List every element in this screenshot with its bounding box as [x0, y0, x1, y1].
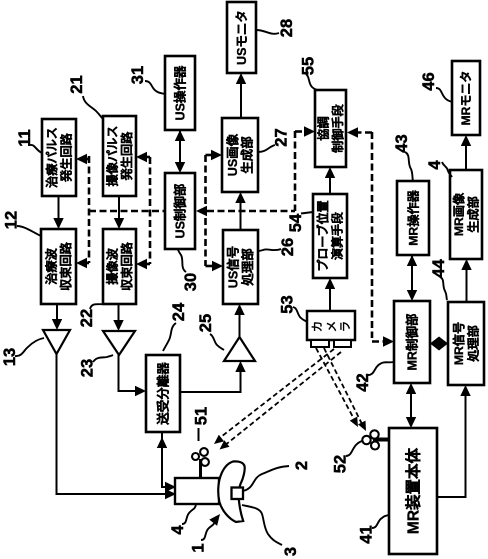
arrowhead into 30 top: [175, 162, 185, 173]
dashed stub to 55 right: [358, 131, 372, 134]
block 30 US制御部: [165, 173, 195, 249]
leader 31: [145, 81, 165, 94]
leader 43: [405, 152, 413, 181]
svg-text:3: 3: [282, 547, 300, 556]
leader 55: [306, 74, 317, 90]
svg-text:52: 52: [331, 455, 349, 473]
svg-text:治療波: 治療波: [44, 247, 59, 284]
svg-text:処理部: 処理部: [240, 248, 255, 287]
probe cable rect 4: [175, 478, 219, 504]
dashed bus V1 from US-controller: [88, 156, 91, 263]
block 21 撮像パルス発生回路: [103, 116, 136, 196]
leader 21: [83, 96, 103, 119]
svg-text:51: 51: [192, 407, 210, 425]
block 22 撮像波収束回路: [103, 229, 136, 304]
wire amp13 to probe: [57, 354, 171, 494]
leader 4 (probe): [182, 505, 196, 524]
dashed stub to 26: [206, 265, 213, 268]
svg-text:26: 26: [279, 238, 297, 256]
arrowhead into 42 left: [383, 336, 394, 346]
leader 28: [256, 30, 279, 34]
leader 26: [258, 249, 281, 251]
svg-text:発生回路: 発生回路: [59, 132, 74, 183]
dashed stub to 42 left: [372, 340, 383, 343]
arrowhead into MR-image-gen bottom: [461, 259, 471, 270]
leader 41: [372, 515, 389, 528]
svg-text:11: 11: [16, 129, 34, 146]
wire 41 to 44: [437, 390, 466, 497]
transducer crescent 1: [218, 461, 244, 522]
svg-text:USモニタ: USモニタ: [234, 10, 249, 65]
block 31 US操作器: [165, 56, 195, 130]
dashed bus H1: [89, 210, 165, 213]
svg-text:収束回路: 収束回路: [119, 241, 134, 291]
dashed bus H2: [207, 210, 295, 213]
svg-text:53: 53: [278, 295, 296, 313]
block 11 治療パルス発生回路: [42, 119, 76, 196]
arrowhead into 55 left: [304, 126, 315, 136]
bed coil 52 lead: [373, 438, 390, 442]
dashed stub to 22: [145, 263, 150, 266]
arrowhead into 12 right: [76, 258, 87, 268]
block 55 協調制御手段: [315, 90, 346, 167]
leader 44: [440, 277, 447, 300]
camera sight line to bed coil b: [324, 348, 362, 424]
leader 1: [201, 522, 215, 540]
wire 44-45: [466, 264, 468, 302]
leader 22: [90, 304, 103, 309]
camera 53 left lens: [311, 340, 329, 347]
wire 31-30 double arrow: [179, 125, 181, 168]
wire 54-55: [329, 172, 331, 194]
dashed stub to 27: [206, 154, 213, 157]
svg-text:31: 31: [129, 66, 147, 84]
camera sight line to bed coil a: [316, 348, 354, 419]
arrowhead into 21 right: [136, 152, 147, 162]
camera sight arrowhead d: [358, 421, 366, 431]
arrowhead into 30 right: [196, 206, 207, 216]
svg-text:ラ: ラ: [339, 321, 352, 333]
arrowhead into 55 bottom: [325, 167, 335, 178]
leader 46: [436, 88, 452, 102]
camera sight arrowhead c: [350, 417, 358, 427]
arrowhead into 24 bottom: [157, 437, 167, 448]
leader 23: [93, 355, 113, 362]
block 41 MR装置本体: [389, 428, 437, 554]
wire amp25 to 26: [239, 309, 241, 339]
svg-text:プローブ位置: プローブ位置: [315, 200, 330, 271]
leader 2: [243, 466, 289, 491]
arrowhead into 26 left: [212, 261, 223, 271]
dashed stub to 12: [85, 262, 89, 265]
block 43 MR操作器: [397, 181, 429, 255]
arrowhead into 22 right: [136, 259, 147, 269]
leader 30: [178, 250, 186, 272]
leader 54: [301, 212, 313, 214]
block 24 送受分離器: [146, 355, 180, 432]
arrowhead into 41 top: [406, 417, 416, 428]
wire camera to 54: [329, 283, 331, 311]
camera sight arrowhead a: [214, 435, 224, 444]
svg-text:MR制御部: MR制御部: [404, 313, 419, 370]
svg-text:カ: カ: [311, 321, 324, 333]
wire 24-probe updown: [162, 432, 170, 487]
svg-text:27: 27: [272, 128, 290, 146]
arrowhead into 27 bottom: [235, 192, 245, 203]
svg-text:撮像波: 撮像波: [105, 247, 120, 284]
dashed bus V3: [204, 155, 207, 266]
svg-text:2: 2: [293, 461, 311, 470]
leader 4 (MR image gen): [442, 162, 452, 177]
wire 21-22: [118, 196, 120, 224]
svg-text:生成部: 生成部: [466, 196, 481, 233]
svg-text:MR操作器: MR操作器: [405, 189, 420, 245]
svg-text:4: 4: [426, 160, 444, 170]
svg-text:30: 30: [182, 273, 200, 291]
wire 24 to amp 25: [180, 370, 241, 392]
svg-text:46: 46: [420, 72, 438, 90]
svg-text:US操作器: US操作器: [172, 65, 187, 120]
arrowhead into 54 bottom: [325, 278, 335, 289]
arrowhead into 22 top: [114, 218, 124, 229]
svg-text:22: 22: [78, 309, 96, 327]
diamond link 42-44: [430, 337, 448, 351]
svg-text:MR装置本体: MR装置本体: [403, 447, 422, 534]
dashed stub to 55 left: [295, 130, 304, 133]
arrowhead into 11 right: [76, 154, 87, 164]
arrowhead into probe (imaging): [165, 482, 176, 492]
svg-text:治療パルス: 治療パルス: [44, 127, 59, 188]
dashed bus V5 to MR-controller: [371, 132, 374, 338]
amplifier 13: [43, 330, 70, 354]
arrowhead into amp 23: [113, 320, 123, 331]
svg-text:US制御部: US制御部: [172, 183, 187, 238]
leader 42: [368, 362, 394, 375]
arrowhead into 42 top: [407, 290, 417, 301]
svg-text:協調: 協調: [316, 116, 331, 140]
svg-text:28: 28: [278, 19, 296, 37]
camera sight arrowhead b: [220, 440, 230, 449]
arrowhead into 42 bottom: [406, 383, 416, 394]
svg-text:44: 44: [430, 259, 448, 278]
camera 53 label カメラ: [311, 321, 352, 333]
wire 11-12: [58, 196, 60, 224]
bed coil 52 circles: [362, 430, 379, 449]
leader 24: [163, 323, 176, 351]
svg-text:42: 42: [354, 373, 372, 391]
leader 27: [258, 145, 275, 152]
wire 12-13: [56, 304, 58, 325]
arrowhead into 44 bottom: [460, 385, 470, 396]
leader 3: [242, 505, 282, 545]
block 54 プローブ位置演算手段: [313, 194, 347, 278]
amplifier 23: [103, 331, 135, 355]
arrowhead into 55 right: [347, 127, 358, 137]
amplifier 25: [224, 337, 255, 361]
svg-text:MR信号: MR信号: [451, 322, 466, 365]
svg-text:21: 21: [68, 75, 86, 93]
svg-text:24: 24: [170, 302, 188, 321]
svg-text:23: 23: [78, 359, 96, 377]
svg-text:撮像パルス: 撮像パルス: [105, 126, 120, 187]
dashed bus V4 to coordinator: [294, 131, 297, 211]
wire 22-23: [118, 304, 120, 326]
camera sight line to probe coil b: [224, 352, 341, 446]
probe coil 51 circles: [192, 448, 209, 466]
svg-text:制御手段: 制御手段: [330, 103, 345, 153]
svg-text:演算手段: 演算手段: [329, 211, 344, 260]
camera sight line to probe coil a: [217, 349, 334, 440]
camera 53 right lens: [334, 340, 351, 347]
svg-text:4: 4: [169, 525, 187, 535]
wire amp23 to 24: [119, 355, 142, 391]
svg-text:55: 55: [299, 57, 317, 75]
svg-text:US信号: US信号: [226, 246, 241, 288]
arrowhead into MR-monitor bottom: [461, 135, 471, 146]
leader 12: [17, 226, 41, 236]
dashed bus V2: [149, 157, 152, 264]
arrowhead into amp 25 base: [235, 361, 245, 372]
wire 43-42 double arrow: [411, 250, 413, 296]
block 44 MR信号処理部: [448, 302, 484, 385]
arrowhead into 28 bottom: [236, 73, 246, 84]
svg-text:41: 41: [357, 525, 375, 543]
block 46 MRモニタ: [452, 61, 480, 135]
arrowhead into 24 left: [135, 386, 146, 396]
arrowhead into 31 bottom: [175, 130, 185, 141]
treatment transducer square 2: [232, 488, 244, 500]
leader 25: [210, 334, 224, 350]
block 42 MR制御部: [394, 301, 430, 383]
arrowhead into 43 bottom: [407, 255, 417, 266]
svg-text:US画像: US画像: [225, 133, 240, 176]
svg-text:12: 12: [2, 211, 20, 229]
svg-text:発生回路: 発生回路: [119, 131, 134, 182]
arrowhead into probe (treatment): [165, 489, 176, 499]
camera 53 body: [307, 311, 355, 340]
wire 27-28: [240, 78, 242, 118]
wire 45-46: [465, 140, 467, 170]
svg-text:生成部: 生成部: [240, 136, 255, 174]
svg-text:メ: メ: [326, 321, 339, 333]
svg-text:処理部: 処理部: [466, 325, 481, 363]
svg-text:収束回路: 収束回路: [58, 241, 73, 291]
dashed stub to 21: [145, 156, 150, 159]
probe coil 51 stem: [199, 459, 202, 478]
block 45 MR画像生成部: [450, 170, 482, 259]
arrowhead into amp 13: [52, 319, 62, 330]
leader 51: [198, 428, 200, 441]
block 27 US画像生成部: [222, 118, 258, 192]
block 28 USモニタ: [227, 2, 256, 73]
wire 42-41 double arrow: [410, 388, 412, 423]
block 26 US信号処理部: [223, 230, 258, 304]
leader 53: [293, 307, 307, 322]
arrowhead into 27 left: [211, 150, 222, 160]
leader 52: [346, 441, 362, 456]
arrowhead of leader 1: [209, 514, 220, 526]
dashed stub to 11: [85, 158, 89, 161]
svg-text:1: 1: [189, 543, 207, 552]
arrowhead into 12 top: [53, 218, 63, 229]
wire 26-27: [240, 197, 242, 230]
leader 13: [15, 338, 44, 356]
svg-text:25: 25: [197, 314, 215, 332]
arrowhead into 26 bottom: [234, 304, 244, 315]
svg-text:43: 43: [393, 134, 411, 152]
svg-text:13: 13: [1, 348, 19, 366]
svg-text:MR画像: MR画像: [451, 192, 466, 236]
leader 11: [30, 145, 42, 153]
block 12 治療波収束回路: [41, 229, 76, 304]
svg-text:MRモニタ: MRモニタ: [459, 71, 473, 126]
svg-text:54: 54: [287, 213, 305, 232]
svg-text:送受分離器: 送受分離器: [155, 362, 170, 426]
